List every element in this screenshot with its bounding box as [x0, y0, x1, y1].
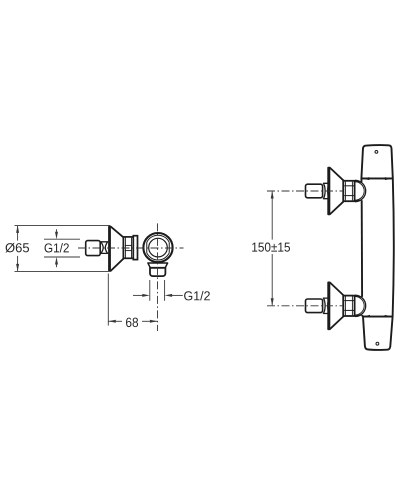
knob outer circle [143, 233, 172, 262]
top escutcheon thick face [328, 168, 330, 213]
bottom escutcheon cone [328, 282, 343, 329]
dimension Ø65 arrow up [16, 225, 19, 233]
centerline bottom connection [267, 305, 343, 307]
bottom hex nut facet upper [344, 300, 354, 302]
dimension Ø65 line lower segment [17, 256, 19, 271]
dimension G1/2 upper line bottom [44, 256, 80, 258]
bottom connect line upper [355, 296, 362, 298]
dimension G1/2 outlet right leader [172, 294, 183, 296]
dimension 150±15 line lower segment [271, 254, 273, 305]
column left edge segment 1 [360, 178, 362, 182]
knob bezel arc bottom [147, 253, 169, 260]
column top screw hole [375, 151, 378, 154]
column left edge segment 2 [361, 200, 363, 297]
knob bezel chord right [168, 242, 170, 252]
dimension Ø65 arrow down [16, 264, 19, 272]
dimension Ø65 extension line top [15, 224, 111, 226]
body hex nut inner facet left [124, 238, 126, 258]
knob inner ring [149, 238, 168, 257]
union spool nut [101, 242, 108, 254]
column junction bottom arrowhead left [363, 315, 370, 318]
dimension 68 arrow right [150, 320, 158, 323]
column right edge [393, 178, 394, 316]
bottom check valve arc outer [355, 295, 366, 316]
column junction top arrowhead left [362, 177, 369, 180]
knob bezel chord left [146, 242, 148, 252]
body hex nut inner facet right [131, 238, 133, 258]
column bottom cap [363, 317, 393, 350]
top connect line upper [355, 181, 362, 183]
dimension 68 extension line [107, 274, 109, 326]
bottom hex nut [343, 296, 354, 316]
top connect line lower [355, 200, 362, 201]
centerline vertical left view [157, 223, 159, 331]
dimension 150±15 line upper segment [271, 192, 273, 240]
label G1/2 outlet [184, 291, 210, 301]
column bottom screw hole [376, 342, 379, 345]
top union spool nut [323, 183, 329, 198]
dimension G1/2 upper line top [44, 238, 80, 240]
centerline top connection [267, 190, 343, 192]
dimension 68 arrow left [108, 320, 116, 323]
bottom check valve arc inner [355, 297, 364, 315]
dimension 150±15 arrow down [271, 298, 274, 306]
column top cap [361, 145, 392, 178]
top check valve arc outer [355, 180, 366, 201]
dimension G1/2 outlet extension right [164, 280, 166, 301]
label 68 [126, 318, 138, 328]
dimension Ø65 extension line bottom [15, 270, 109, 272]
body hex nut [123, 237, 133, 258]
bottom escutcheon thick face [328, 283, 330, 328]
bottom hex nut inner edge left [344, 296, 346, 315]
top hex nut facet lower [344, 195, 354, 197]
dimension G1/2 outlet extension left [149, 280, 151, 301]
body collar [133, 236, 137, 260]
column junction top arrow line [363, 178, 392, 180]
dimension Ø65 line upper segment [17, 226, 19, 241]
bottom wall union block [306, 299, 323, 313]
top wall union block [306, 184, 323, 198]
column junction bottom arrow line [363, 315, 391, 317]
dimension 68 line right segment [142, 320, 157, 322]
knob bezel arc top [147, 235, 169, 242]
body hex nut middle band [125, 245, 131, 250]
bottom connect line lower [355, 315, 362, 316]
outlet flange [148, 263, 168, 268]
outlet stub [150, 268, 165, 276]
column junction top arrowhead right [385, 177, 392, 180]
label Ø65 [5, 243, 29, 253]
top hex nut [343, 181, 354, 201]
escutcheon cone thick face [109, 227, 111, 270]
dimension G1/2 upper arrow up [56, 264, 58, 267]
top escutcheon cone [328, 168, 343, 215]
top hex nut inner edge right [351, 182, 353, 201]
label 150±15 [252, 243, 290, 252]
top check valve arc inner [355, 182, 364, 200]
top hex nut facet upper [344, 185, 354, 187]
column junction bottom arrowhead right [385, 315, 392, 318]
bottom union spool nut [323, 298, 329, 313]
escutcheon cone [109, 227, 123, 271]
dimension G1/2 upper arrow down [56, 229, 58, 232]
bottom hex nut inner edge right [351, 296, 353, 315]
dimension G1/2 outlet left leader [133, 294, 143, 296]
column left edge segment 3 [361, 315, 363, 317]
dimension 150±15 arrow up [271, 191, 274, 199]
centerline horizontal left view [78, 247, 184, 249]
dimension 68 line left segment [108, 320, 122, 322]
label G1/2 upper [45, 243, 69, 253]
top hex nut inner edge left [344, 182, 346, 201]
wall union block [86, 241, 101, 256]
bottom hex nut facet lower [344, 309, 354, 311]
